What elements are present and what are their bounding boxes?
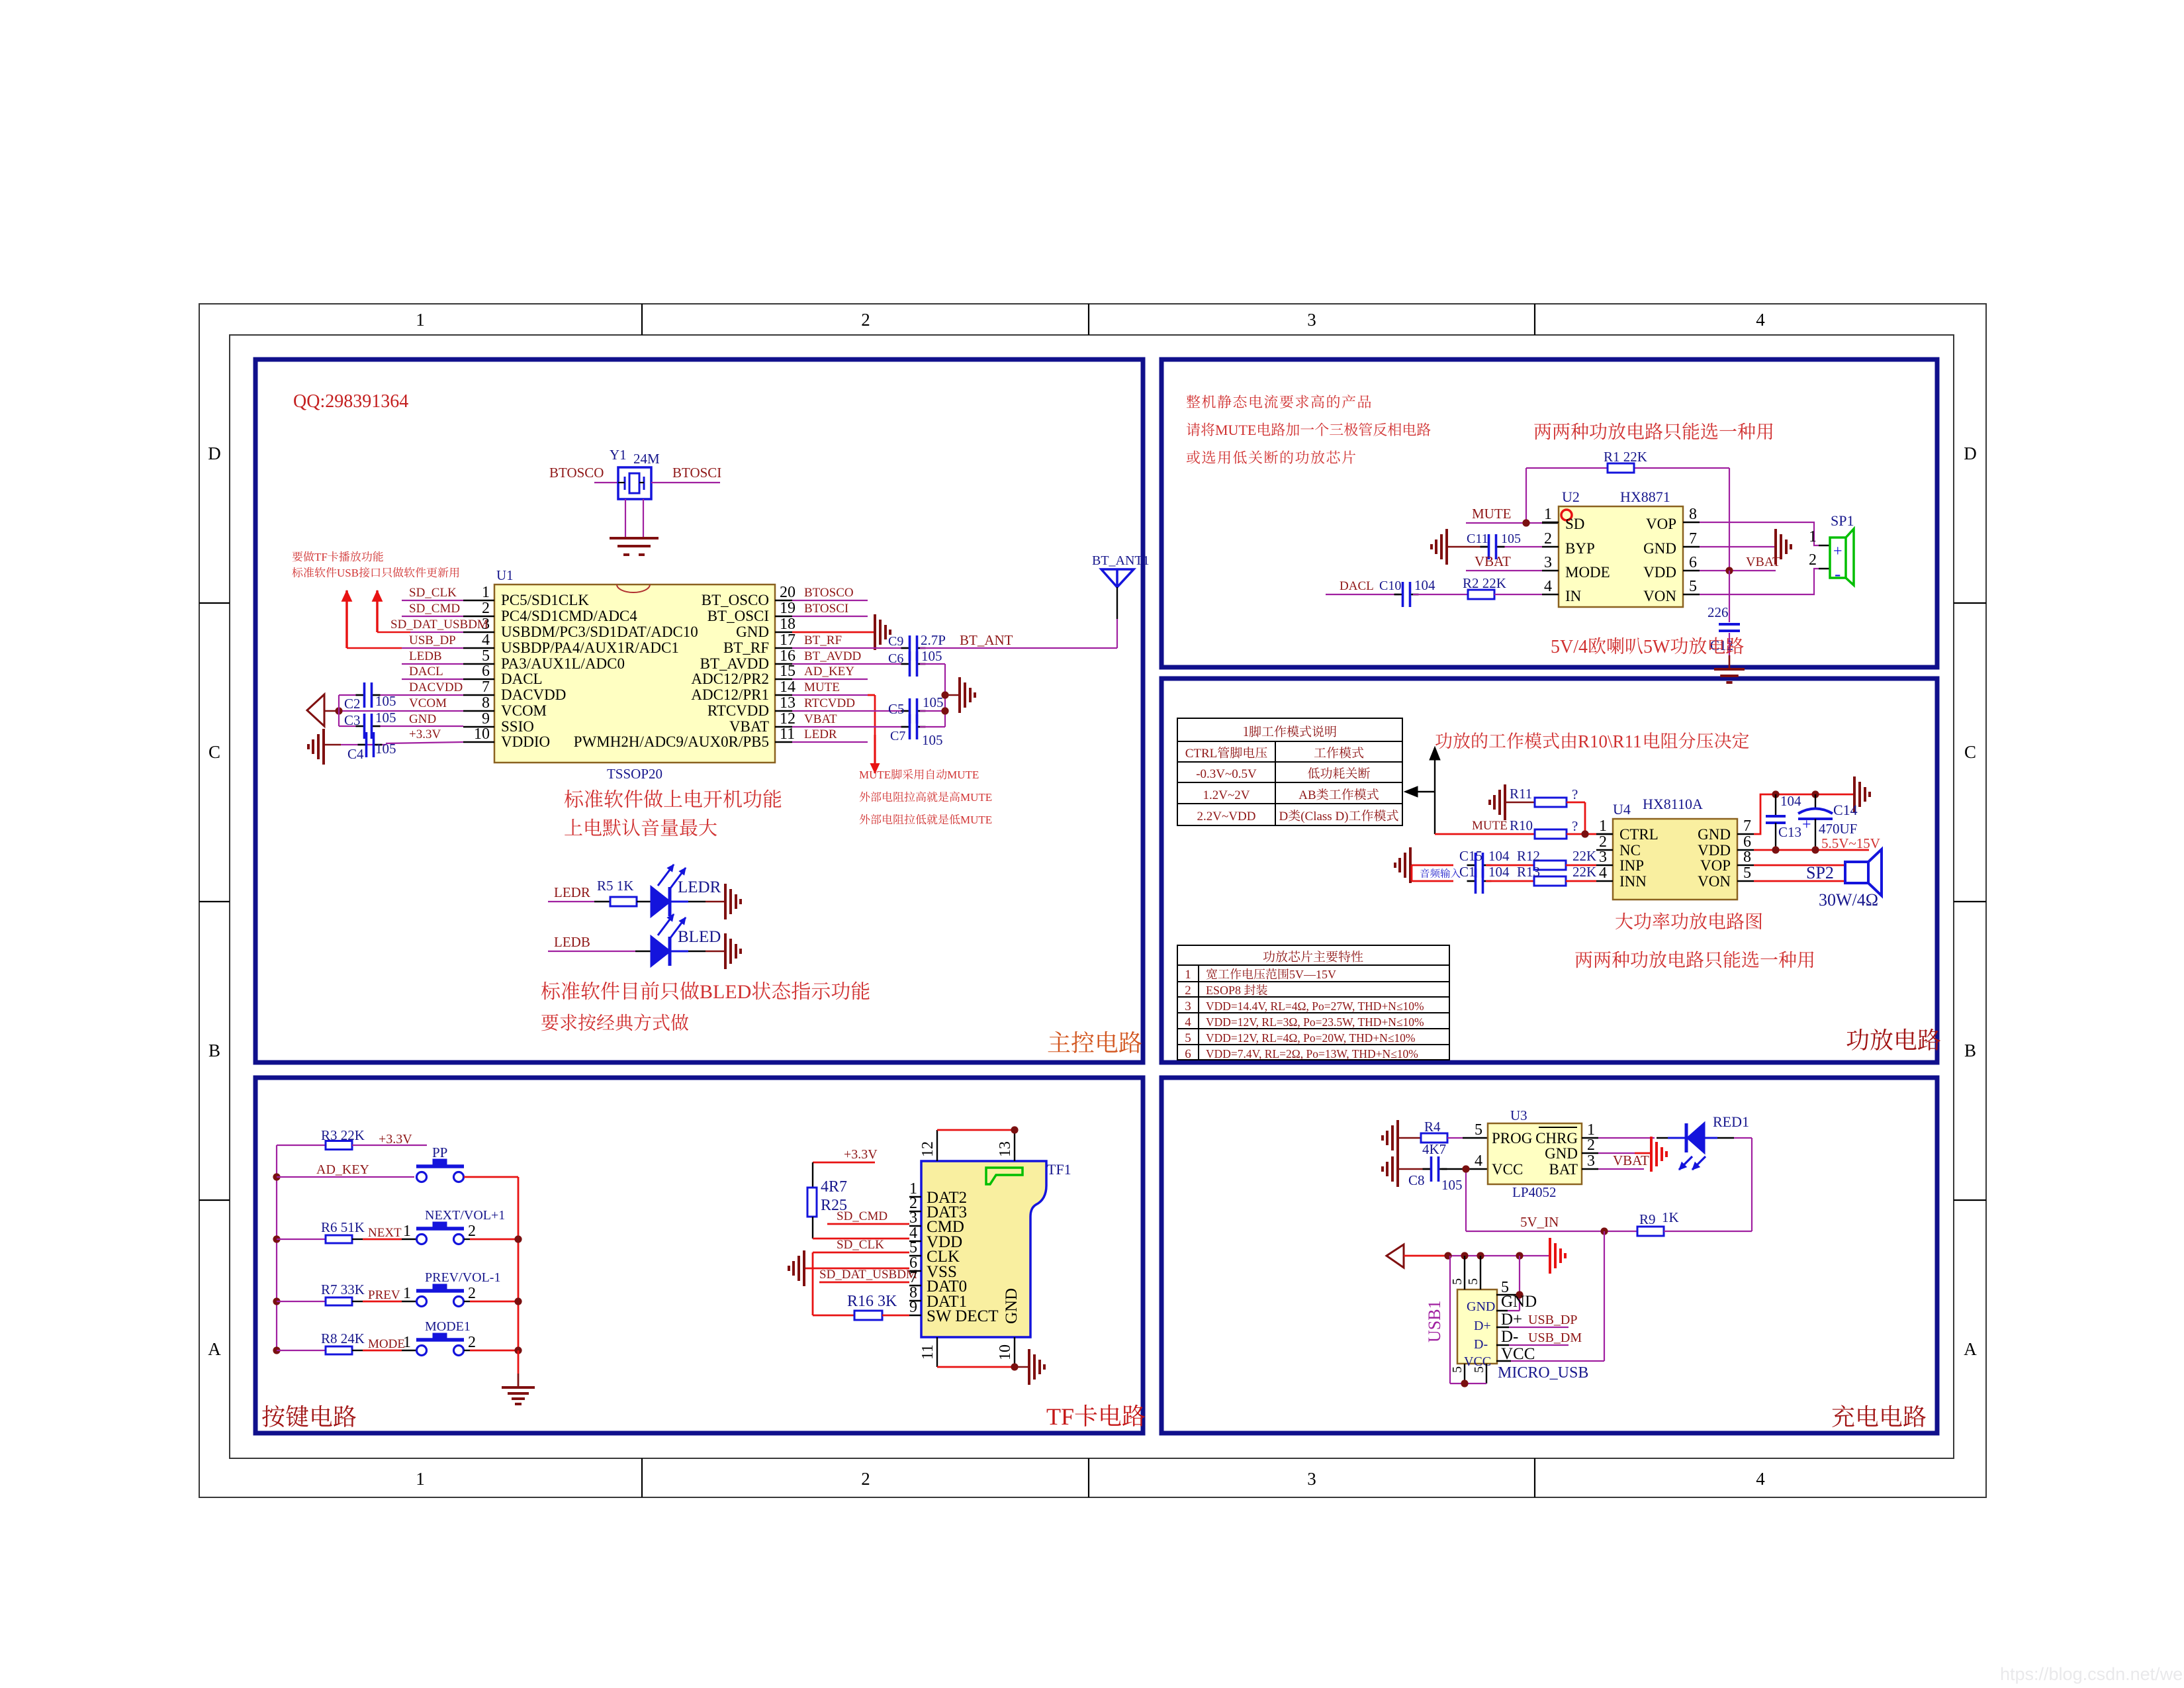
wire VCC down to 5V_IN <box>1465 1169 1467 1231</box>
svg-text:17: 17 <box>780 632 796 649</box>
wire R5 to LED LEDR <box>637 901 651 902</box>
svg-text:GND: GND <box>1643 540 1676 557</box>
vertical wire joining C2 C3 VCOM <box>338 695 340 726</box>
svg-text:B: B <box>208 1041 220 1060</box>
svg-text:LP4052: LP4052 <box>1512 1184 1557 1200</box>
svg-text:GND: GND <box>1003 1288 1021 1324</box>
svg-text:18: 18 <box>780 616 796 633</box>
junction dot right rail 2 <box>514 1346 522 1354</box>
svg-text:BAT: BAT <box>1549 1161 1578 1178</box>
resistor R8 <box>326 1346 352 1354</box>
junction dot C13 bottom <box>1772 846 1779 853</box>
svg-text:C9: C9 <box>888 634 903 649</box>
U1 pin 11 stub right <box>775 741 792 743</box>
junction dot C5 rail <box>941 707 948 714</box>
wire R4 to PROG <box>1447 1137 1488 1139</box>
svg-text:104: 104 <box>1414 577 1435 593</box>
svg-text:AD_KEY: AD_KEY <box>316 1162 369 1177</box>
svg-text:105: 105 <box>923 694 944 710</box>
svg-text:D-: D- <box>1474 1337 1488 1352</box>
svg-text:8: 8 <box>482 694 490 712</box>
svg-text:(Class D): (Class D) <box>1300 810 1348 823</box>
svg-text:5: 5 <box>1185 1031 1191 1045</box>
U1 pin 9 stub <box>463 726 494 727</box>
U1 pin 6 stub <box>463 679 494 680</box>
svg-text:8: 8 <box>1743 849 1751 866</box>
svg-text:INN: INN <box>1619 873 1647 890</box>
wire VOP to SP2 <box>1754 865 1845 867</box>
svg-text:USBDM/PC3/SD1DAT/ADC10: USBDM/PC3/SD1DAT/ADC10 <box>501 624 698 640</box>
wire right rail to ground <box>518 1350 520 1387</box>
LED BLED diode <box>651 914 686 966</box>
svg-text:DACL: DACL <box>409 665 443 679</box>
U3 right stubs <box>1582 1138 1598 1169</box>
annotation default volume <box>565 819 717 837</box>
USB1 bottom pins 5 5 <box>1450 1256 1486 1383</box>
svg-text:BT_ANT1: BT_ANT1 <box>1092 553 1150 568</box>
svg-text:GND: GND <box>1698 826 1731 843</box>
capacitor C1 <box>1467 868 1492 894</box>
capacitor C9 <box>901 635 926 661</box>
junction dot pin10 bottom <box>1011 1363 1018 1370</box>
resistor R10 <box>1535 829 1567 839</box>
svg-text:13: 13 <box>997 1141 1014 1157</box>
svg-text:15: 15 <box>780 663 796 680</box>
U1 pin 4 stub <box>463 647 494 649</box>
svg-text:C11: C11 <box>1467 532 1488 546</box>
svg-text:QQ:298391364: QQ:298391364 <box>293 391 408 412</box>
resistor R11 <box>1535 798 1567 807</box>
svg-text:4: 4 <box>1185 1015 1191 1029</box>
svg-text:BT_AVDD: BT_AVDD <box>700 655 769 672</box>
wire DACL to C10 <box>1326 594 1399 595</box>
resistor R5 <box>610 897 637 906</box>
annotation choose one (lower) <box>1575 951 1813 968</box>
wire +3.3V to R25 <box>813 1162 875 1188</box>
TF1 pin 5 stub <box>909 1255 921 1256</box>
wire resistor to button NEXT <box>352 1239 416 1240</box>
svg-text:D+: D+ <box>1474 1319 1491 1333</box>
svg-text:USB1: USB1 <box>1425 1300 1444 1342</box>
ground left of C4 <box>308 729 324 765</box>
wire R11 to CTRL junction <box>1567 802 1585 834</box>
svg-text:5: 5 <box>1450 1366 1465 1373</box>
svg-text:20: 20 <box>780 584 796 601</box>
annotation low shutdown chip <box>1187 451 1355 464</box>
svg-text:3: 3 <box>1544 554 1552 571</box>
wire R12 to INP <box>1566 865 1596 867</box>
mode table (1脚工作模式说明) <box>1177 718 1402 825</box>
svg-text:1: 1 <box>403 1223 411 1240</box>
TF1 pin 6 stub <box>909 1270 921 1272</box>
svg-text:4: 4 <box>1756 310 1765 330</box>
svg-text:+3.3V: +3.3V <box>409 727 441 741</box>
svg-text:?: ? <box>1572 786 1578 802</box>
svg-text:3: 3 <box>1307 1469 1316 1489</box>
U1 pin 1 stub <box>463 600 494 601</box>
wire left rail (buttons) <box>276 1145 277 1350</box>
svg-text:5V—15V: 5V—15V <box>1289 968 1336 981</box>
wire MUTE to R10 <box>1435 833 1535 835</box>
junction dot rail PREV <box>273 1297 280 1305</box>
svg-text:SD: SD <box>1565 516 1584 532</box>
svg-text:+: + <box>1802 816 1811 833</box>
svg-text:GND: GND <box>1467 1299 1495 1314</box>
svg-text:MICRO_USB: MICRO_USB <box>1498 1364 1588 1382</box>
resistor R12 <box>1534 861 1566 870</box>
svg-text:USB_DP: USB_DP <box>409 633 456 647</box>
svg-text:ADC12/PR2: ADC12/PR2 <box>691 671 769 687</box>
svg-text:MUTE: MUTE <box>960 814 992 826</box>
wire RED1 to R9 net <box>1704 1138 1752 1231</box>
junction dot 5V_IN <box>1600 1227 1608 1235</box>
svg-text:19: 19 <box>780 600 796 617</box>
svg-text:AB: AB <box>1298 788 1316 802</box>
U1 pin 18 stub right <box>775 632 792 633</box>
USB1 right pins <box>1496 1311 1569 1361</box>
TF1 pin 2 stub <box>909 1211 921 1212</box>
svg-text:C4: C4 <box>347 746 364 762</box>
svg-text:VBAT: VBAT <box>729 718 769 735</box>
svg-text:ESOP8: ESOP8 <box>1206 984 1241 997</box>
TF1 top pins 12 13 <box>937 1130 1015 1161</box>
svg-text:R9: R9 <box>1639 1211 1656 1227</box>
wire ground to R11 <box>1506 802 1535 804</box>
svg-text:VDD=12V, RL=3Ω, Po=23.5W, T: VDD=12V, RL=3Ω, Po=23.5W, THD+N≤10% <box>1206 1015 1424 1029</box>
junction dot C6 rail <box>941 691 948 698</box>
svg-text:5: 5 <box>1472 1366 1486 1373</box>
svg-text:105: 105 <box>375 741 396 757</box>
capacitor C2 <box>356 682 381 708</box>
svg-text:1: 1 <box>1185 968 1191 982</box>
wire GND pin7 to ground <box>1700 546 1774 547</box>
junction dot R10/R11 <box>1581 830 1588 837</box>
U1 pin 14 stub right <box>775 694 792 696</box>
svg-text:VON: VON <box>1698 873 1731 890</box>
svg-text:PC4/SD1CMD/ADC4: PC4/SD1CMD/ADC4 <box>501 608 637 624</box>
svg-text:ADC12/PR1: ADC12/PR1 <box>691 686 769 703</box>
svg-text:104: 104 <box>1780 793 1801 809</box>
svg-text:1: 1 <box>416 1469 425 1489</box>
svg-text:PP: PP <box>432 1145 447 1160</box>
svg-text:VBAT: VBAT <box>804 712 837 726</box>
U2 pin 8 stub right <box>1683 522 1700 523</box>
wire net BTOSCO <box>792 600 868 601</box>
wire VBAT to C7 <box>792 726 907 727</box>
svg-text:10: 10 <box>997 1344 1014 1360</box>
svg-text:5.5V~15V: 5.5V~15V <box>1821 835 1880 851</box>
LED RED1 <box>1679 1123 1706 1170</box>
svg-text:BYP: BYP <box>1565 540 1595 557</box>
wire PP to right rail <box>464 1177 518 1350</box>
capacitor C5 <box>901 698 926 724</box>
push button MODE1 <box>416 1333 464 1356</box>
svg-text:PROG: PROG <box>1492 1130 1532 1147</box>
junction dot VCC/5V_IN <box>1462 1165 1469 1172</box>
wire net SD_CMD <box>402 616 463 617</box>
U4 pin stub right 6 <box>1737 849 1754 851</box>
U4 pin stub right 7 <box>1737 833 1754 835</box>
junction dot MUTE/R1 <box>1522 519 1529 526</box>
svg-text:U2: U2 <box>1562 489 1580 505</box>
svg-text:C1: C1 <box>1459 864 1476 880</box>
wire DACVDD row to C2 <box>339 694 463 696</box>
junction dot right rail 1 <box>514 1297 522 1305</box>
junction dot rail MODE <box>273 1346 280 1354</box>
U4 pin stub right 8 <box>1737 865 1754 866</box>
svg-text:R2 22K: R2 22K <box>1463 575 1506 591</box>
svg-text:7: 7 <box>482 679 490 696</box>
wire CHRG to RED1 <box>1598 1137 1685 1139</box>
svg-text:LEDR: LEDR <box>804 727 837 741</box>
svg-text:13: 13 <box>780 694 796 712</box>
annotation working mode R10/R11 <box>1435 732 1576 749</box>
svg-text:R7 33K: R7 33K <box>321 1282 365 1297</box>
U4 pin stub right 5 <box>1737 880 1754 882</box>
wire VON to SP1 pin2 <box>1700 569 1819 594</box>
wire 5V_IN <box>1466 1231 1637 1232</box>
U1 pin 2 stub <box>463 616 494 617</box>
svg-text:VBAT: VBAT <box>1475 553 1511 569</box>
svg-text:1: 1 <box>403 1334 411 1351</box>
svg-text:14: 14 <box>780 679 796 696</box>
USB1 connector <box>1457 1289 1497 1364</box>
svg-text:VBAT: VBAT <box>1746 555 1780 569</box>
ground at U1 pin18 <box>875 614 890 650</box>
svg-text:C2: C2 <box>344 696 361 712</box>
U4 pin 1 stub <box>1596 833 1613 835</box>
svg-text:11: 11 <box>780 726 795 743</box>
wire R25 to VDD <box>813 1217 909 1239</box>
ground left of C8 <box>1383 1151 1398 1187</box>
red arrow up (USB_DP) <box>341 590 351 648</box>
TF1 pin 3 stub <box>909 1225 921 1227</box>
ground TF left <box>789 1250 804 1286</box>
svg-text:SW DECT: SW DECT <box>927 1307 999 1325</box>
U1 pin 7 stub <box>463 694 494 696</box>
svg-text:BT_AVDD: BT_AVDD <box>804 649 861 663</box>
svg-text:C8: C8 <box>1408 1172 1425 1188</box>
U4 pin 3 stub <box>1596 865 1613 866</box>
svg-text:MUTE: MUTE <box>804 680 840 694</box>
block title 按键电路 <box>262 1405 356 1427</box>
svg-text:SD_CLK: SD_CLK <box>409 586 457 600</box>
svg-text:4R7: 4R7 <box>821 1178 847 1196</box>
wire SD_DAT_USBDM with red branch <box>377 632 463 633</box>
wire VCOM row <box>324 710 463 712</box>
svg-text:24M: 24M <box>633 451 660 467</box>
svg-text:C: C <box>208 742 220 762</box>
svg-text:R10: R10 <box>1510 818 1533 833</box>
wire LEDR to R5 <box>548 901 610 902</box>
svg-text:HX8871: HX8871 <box>1620 489 1670 505</box>
svg-text:HX8110A: HX8110A <box>1643 796 1703 812</box>
junction dot pin5 right <box>1516 1291 1523 1298</box>
wire VBAT to MODE <box>1466 570 1542 571</box>
svg-text:B: B <box>1964 1041 1976 1060</box>
svg-text:8: 8 <box>1689 506 1697 523</box>
svg-text:10: 10 <box>474 726 490 743</box>
svg-text:VDD=12V, RL=4Ω, Po=20W, THD: VDD=12V, RL=4Ω, Po=20W, THD+N≤10% <box>1206 1031 1416 1045</box>
capacitor C10 <box>1394 582 1419 607</box>
svg-text:1K: 1K <box>1662 1209 1679 1225</box>
wire resistor to button PREV <box>352 1301 416 1302</box>
svg-text:MUTE: MUTE <box>960 791 992 804</box>
junction dot pin13 top <box>1011 1126 1018 1133</box>
svg-text:+: + <box>1833 543 1843 560</box>
svg-text:C10: C10 <box>1379 579 1401 593</box>
svg-text:1: 1 <box>1809 528 1817 545</box>
ground right of BLED <box>725 933 741 969</box>
wire to mid ground <box>945 694 958 696</box>
svg-text:104: 104 <box>1488 864 1510 880</box>
arrow from table to MUTE wire <box>1404 747 1440 834</box>
svg-text:GND: GND <box>1545 1145 1578 1162</box>
terminal triangle (USB shield) <box>1387 1244 1404 1268</box>
svg-text:MODE1: MODE1 <box>425 1319 471 1334</box>
wire BLED to ground <box>670 951 724 953</box>
svg-text:3: 3 <box>1599 849 1607 866</box>
svg-text:C15: C15 <box>1459 848 1482 864</box>
svg-text:105: 105 <box>921 648 942 664</box>
wire LEDR diode to ground <box>670 901 724 903</box>
ground left of R4 <box>1383 1120 1398 1156</box>
svg-text:22K: 22K <box>1572 864 1596 880</box>
svg-text:VCOM: VCOM <box>409 696 447 710</box>
svg-text:GND: GND <box>1501 1293 1537 1311</box>
svg-text:7: 7 <box>1689 530 1697 547</box>
svg-text:SD_CMD: SD_CMD <box>409 602 460 616</box>
svg-text:9: 9 <box>909 1299 917 1316</box>
wire VDD to VBAT label <box>1700 570 1776 571</box>
wire GND pin7 up to top rail <box>1754 794 1853 834</box>
svg-text:SSIO: SSIO <box>501 718 534 735</box>
wire VCC to 5V_IN rail <box>1511 1231 1604 1361</box>
svg-text:D: D <box>208 444 221 463</box>
wire R1 net (SD to VDD) <box>1526 468 1729 571</box>
svg-text:104: 104 <box>1488 848 1510 864</box>
junction dot C14 top <box>1811 790 1819 798</box>
capacitor C13 <box>1766 794 1786 850</box>
svg-text:226: 226 <box>1707 604 1729 620</box>
svg-text:RTCVDD: RTCVDD <box>707 702 769 719</box>
wire ground to R4 <box>1399 1137 1421 1139</box>
svg-text:2: 2 <box>861 310 870 330</box>
svg-text:VDD=7.4V, RL=2Ω, Po=13W, TH: VDD=7.4V, RL=2Ω, Po=13W, THD+N≤10% <box>1206 1047 1418 1060</box>
svg-text:5V/4: 5V/4 <box>1551 637 1588 657</box>
net label audio input 音频输入 <box>1420 868 1461 878</box>
svg-text:BLED: BLED <box>700 981 751 1003</box>
wire SW DECT net <box>813 1252 854 1315</box>
svg-text:C5: C5 <box>888 701 905 717</box>
ground TF bottom <box>1015 1349 1044 1385</box>
svg-text:1: 1 <box>416 310 425 330</box>
svg-text:4K7: 4K7 <box>1422 1141 1446 1157</box>
U1 pin 5 stub <box>463 663 494 665</box>
svg-text:11: 11 <box>919 1344 936 1360</box>
svg-text:VON: VON <box>1643 588 1676 604</box>
junction dots USB top rail <box>1444 1252 1451 1259</box>
svg-text:3: 3 <box>1307 310 1316 330</box>
wire VDD rail down to C12 <box>1729 571 1730 669</box>
U1 pin 19 stub right <box>775 616 792 617</box>
svg-text:PREV: PREV <box>368 1288 400 1302</box>
resistor R7 <box>326 1297 352 1305</box>
svg-text:BT_OSCI: BT_OSCI <box>707 608 769 624</box>
features table (功放芯片主要特性) <box>1177 945 1449 1060</box>
svg-text:C14: C14 <box>1833 802 1858 818</box>
svg-text:BT_OSCO: BT_OSCO <box>702 592 769 608</box>
svg-text:BT_RF: BT_RF <box>804 633 842 647</box>
svg-text:30W/4Ω: 30W/4Ω <box>1819 890 1878 910</box>
ground below C12 <box>1714 669 1745 682</box>
TF1 pin 1 stub <box>909 1196 921 1197</box>
svg-text:5: 5 <box>1743 865 1751 882</box>
svg-text:BTOSCI: BTOSCI <box>804 602 848 616</box>
wire button PREV to right rail <box>464 1301 518 1302</box>
svg-text:USB_DM: USB_DM <box>1528 1331 1582 1345</box>
wire SD_DAT_USBDM to DAT0 <box>819 1282 909 1284</box>
svg-text:IN: IN <box>1565 588 1582 604</box>
U1 pin 17 stub right <box>775 647 792 649</box>
ground right of U2 <box>1776 529 1791 565</box>
svg-text:LEDR: LEDR <box>678 878 721 896</box>
resistor R2 <box>1468 590 1494 599</box>
junction dot VCOM <box>335 707 342 714</box>
block title 充电电路 <box>1832 1405 1926 1427</box>
svg-text:4: 4 <box>1599 865 1607 882</box>
svg-text:VOP: VOP <box>1700 857 1731 874</box>
wire BAT to VBAT <box>1598 1168 1644 1170</box>
wire MUTE to U2 <box>1466 522 1559 524</box>
svg-text:MUTE: MUTE <box>1215 422 1256 438</box>
wire BT_AVDD to C6 <box>792 663 907 665</box>
wire Y1 to BTOSCI <box>651 482 720 483</box>
U1 pin 10 stub <box>463 741 494 743</box>
svg-text:USBDP/PA4/AUX1R/ADC1: USBDP/PA4/AUX1R/ADC1 <box>501 639 679 656</box>
key buttons / TF card block border <box>255 1078 1143 1433</box>
svg-text:4: 4 <box>482 632 490 649</box>
wire ground to VSS <box>805 1268 909 1270</box>
wire C8 to VCC <box>1441 1168 1488 1170</box>
wire VOP to SP1 pin1 <box>1700 522 1819 545</box>
resistor R9 <box>1637 1227 1664 1236</box>
wire GND row to C3 <box>339 726 463 727</box>
svg-text:5: 5 <box>1466 1278 1480 1285</box>
wire net DACL <box>402 679 463 680</box>
wire button MODE to right rail <box>464 1350 518 1351</box>
capacitor C15 <box>1467 853 1492 878</box>
svg-text:U1: U1 <box>496 567 514 583</box>
svg-text:5V_IN: 5V_IN <box>1520 1214 1559 1230</box>
wire PREV row <box>277 1301 326 1302</box>
svg-text:12: 12 <box>919 1141 936 1157</box>
svg-text:CTRL: CTRL <box>1619 826 1659 843</box>
svg-text:+3.3V: +3.3V <box>844 1147 878 1162</box>
red arrow down (MUTE) <box>870 735 880 773</box>
svg-text:MUTE: MUTE <box>1472 819 1508 833</box>
U2 pin 3 stub <box>1542 570 1559 571</box>
junction dot C13 top <box>1772 790 1779 798</box>
TF1 pin 8 stub <box>909 1300 921 1301</box>
svg-text:R11: R11 <box>1510 786 1532 802</box>
svg-text:D: D <box>1279 810 1288 823</box>
svg-text:1: 1 <box>1599 818 1607 835</box>
high power amplifier block border (功放电路) <box>1161 679 1937 1062</box>
U2 pin 6 stub right <box>1683 570 1700 571</box>
annotation quiescent current 3 lines <box>1187 395 1371 408</box>
svg-text:R16 3K: R16 3K <box>847 1293 897 1310</box>
